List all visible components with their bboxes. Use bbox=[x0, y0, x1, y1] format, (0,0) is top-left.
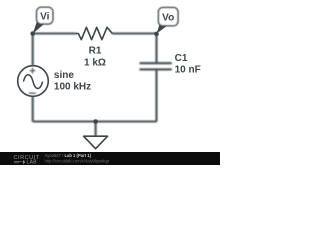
svg-text:10 nF: 10 nF bbox=[175, 65, 201, 76]
svg-text:1 kΩ: 1 kΩ bbox=[84, 57, 106, 68]
wire right vertical lower bbox=[155, 69, 157, 121]
svg-text:R1: R1 bbox=[89, 46, 102, 57]
voltage source V1 bbox=[18, 66, 49, 97]
wire left vertical lower bbox=[32, 96, 34, 121]
node flag Vi bbox=[33, 7, 53, 34]
wire top right bbox=[112, 32, 157, 34]
node flag Vo bbox=[157, 8, 179, 34]
wire left vertical upper bbox=[32, 34, 34, 66]
capacitor C1 bbox=[140, 63, 172, 69]
svg-text:C1: C1 bbox=[175, 53, 188, 64]
ground junction dot bbox=[93, 119, 98, 124]
svg-text:sine: sine bbox=[54, 70, 74, 81]
svg-text:Vo: Vo bbox=[162, 12, 174, 23]
resistor R1 bbox=[76, 27, 112, 39]
wire bottom bbox=[33, 120, 157, 122]
svg-text:Ayoo527 / Lab 1 (Part 1): Ayoo527 / Lab 1 (Part 1) bbox=[45, 153, 92, 158]
node Vi junction dot bbox=[30, 31, 35, 36]
watermark bar bbox=[0, 152, 220, 165]
wire ground stub bbox=[95, 122, 97, 137]
node Vo junction dot bbox=[154, 32, 159, 37]
watermark logo CIRCUIT LAB bbox=[14, 155, 40, 166]
wire top left bbox=[33, 32, 77, 34]
svg-text:100 kHz: 100 kHz bbox=[54, 82, 91, 93]
wire right vertical upper bbox=[155, 34, 157, 64]
ground bbox=[84, 136, 108, 149]
svg-text:Vi: Vi bbox=[40, 11, 49, 22]
svg-text:http://circuitlab.com/c/4aly9k: http://circuitlab.com/c/4aly9kpwkqjr bbox=[45, 159, 110, 164]
svg-text:LAB: LAB bbox=[27, 160, 38, 165]
